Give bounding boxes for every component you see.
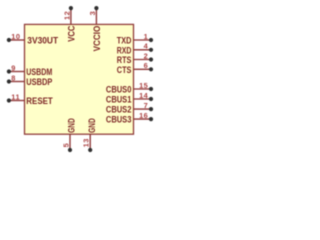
pin number 11 bbox=[11, 92, 20, 101]
svg-text:11: 11 bbox=[11, 92, 20, 101]
svg-text:GND: GND bbox=[67, 118, 78, 133]
pin 16 CBUS3 dot bbox=[149, 117, 153, 121]
pin name TXD bbox=[117, 36, 132, 47]
pin 16 CBUS3 wire bbox=[134, 118, 152, 120]
pin 9 USBDM dot bbox=[7, 69, 11, 73]
pin name CBUS3 bbox=[106, 115, 132, 126]
pin 9 USBDM wire bbox=[9, 71, 25, 73]
pin number 12 bbox=[62, 11, 71, 20]
pin number 16 bbox=[139, 111, 148, 120]
svg-text:9: 9 bbox=[11, 63, 16, 72]
svg-text:16: 16 bbox=[139, 111, 148, 120]
pin number 8 bbox=[11, 73, 16, 82]
svg-text:4: 4 bbox=[144, 42, 149, 51]
pin 12 VCC wire bbox=[70, 8, 72, 24]
pin 3 VCCIO wire bbox=[95, 8, 97, 24]
pin 11 RESET dot bbox=[7, 98, 11, 102]
pin 7 CBUS2 wire bbox=[134, 108, 152, 110]
svg-text:3V30UT: 3V30UT bbox=[27, 36, 58, 47]
pin name GND (pin 5) bbox=[67, 118, 78, 133]
pin number 14 bbox=[139, 91, 149, 100]
pin 15 CBUS0 dot bbox=[149, 87, 153, 91]
pin 1 TXD wire bbox=[134, 39, 152, 41]
pin 15 CBUS0 wire bbox=[134, 88, 152, 90]
pin name CBUS1 bbox=[106, 95, 132, 106]
pin name GND (pin 13) bbox=[87, 118, 98, 133]
svg-text:6: 6 bbox=[144, 61, 149, 70]
svg-text:12: 12 bbox=[62, 11, 71, 20]
pin name RESET bbox=[26, 96, 53, 107]
pin number 2 bbox=[144, 51, 149, 60]
svg-text:8: 8 bbox=[11, 73, 16, 82]
svg-text:10: 10 bbox=[11, 32, 20, 41]
pin 11 RESET wire bbox=[9, 100, 25, 102]
svg-text:5: 5 bbox=[61, 143, 70, 148]
pin 5 GND wire bbox=[69, 134, 71, 150]
pin 13 GND wire bbox=[89, 134, 91, 150]
pin 6 CTS wire bbox=[134, 68, 152, 70]
svg-text:2: 2 bbox=[144, 51, 149, 60]
pin 2 RTS wire bbox=[134, 59, 152, 61]
pin name CBUS2 bbox=[106, 105, 132, 116]
pin 14 CBUS1 dot bbox=[149, 97, 153, 101]
svg-text:3: 3 bbox=[88, 11, 97, 16]
svg-text:1: 1 bbox=[144, 32, 149, 41]
pin name CBUS0 bbox=[106, 85, 132, 96]
svg-text:GND: GND bbox=[87, 118, 98, 133]
pin name VCCIO bbox=[92, 25, 103, 51]
pin number 1 bbox=[144, 32, 149, 41]
pin 6 CTS dot bbox=[149, 67, 153, 71]
pin number 10 bbox=[11, 32, 20, 41]
pin 8 USBDP wire bbox=[9, 81, 25, 83]
pin 5 GND dot bbox=[68, 148, 72, 152]
svg-text:CBUS3: CBUS3 bbox=[106, 115, 132, 126]
pin 7 CBUS2 dot bbox=[149, 107, 153, 111]
pin 2 RTS dot bbox=[149, 57, 153, 61]
pin 14 CBUS1 wire bbox=[134, 98, 152, 100]
IC U1 body (FT230XS USB-UART symbol) bbox=[25, 24, 134, 134]
svg-text:13: 13 bbox=[82, 138, 91, 147]
pin number 9 bbox=[11, 63, 16, 72]
svg-text:15: 15 bbox=[139, 81, 148, 90]
svg-text:RESET: RESET bbox=[26, 96, 53, 107]
pin number 15 bbox=[139, 81, 148, 90]
svg-text:7: 7 bbox=[144, 101, 149, 110]
svg-text:CTS: CTS bbox=[117, 65, 132, 76]
pin 10 3V3OUT wire bbox=[9, 39, 25, 41]
pin number 6 bbox=[144, 61, 149, 70]
svg-text:VCCIO: VCCIO bbox=[92, 25, 103, 51]
pin 4 RXD wire bbox=[134, 49, 152, 51]
pin 4 RXD dot bbox=[149, 48, 153, 52]
pin 12 VCC dot bbox=[69, 6, 73, 10]
pin name USBDP bbox=[26, 77, 52, 88]
svg-text:14: 14 bbox=[139, 91, 149, 100]
pin name 3V3OUT bbox=[27, 36, 58, 47]
pin name RTS bbox=[117, 55, 132, 66]
pin 8 USBDP dot bbox=[7, 79, 11, 83]
pin 3 VCCIO dot bbox=[94, 6, 98, 10]
pin number 13 bbox=[82, 138, 91, 147]
pin number 3 bbox=[88, 11, 97, 16]
pin number 4 bbox=[144, 42, 149, 51]
pin name VCC bbox=[66, 26, 77, 42]
pin 13 GND dot bbox=[88, 148, 92, 152]
pin 1 TXD dot bbox=[149, 38, 153, 42]
pin 10 3V3OUT dot bbox=[7, 38, 11, 42]
pin number 5 bbox=[61, 143, 70, 148]
svg-text:USBDP: USBDP bbox=[26, 77, 52, 88]
svg-text:VCC: VCC bbox=[66, 26, 77, 42]
pin name RXD bbox=[117, 45, 132, 56]
pin name USBDM bbox=[26, 67, 52, 78]
pin number 7 bbox=[144, 101, 149, 110]
pin name CTS bbox=[117, 65, 132, 76]
